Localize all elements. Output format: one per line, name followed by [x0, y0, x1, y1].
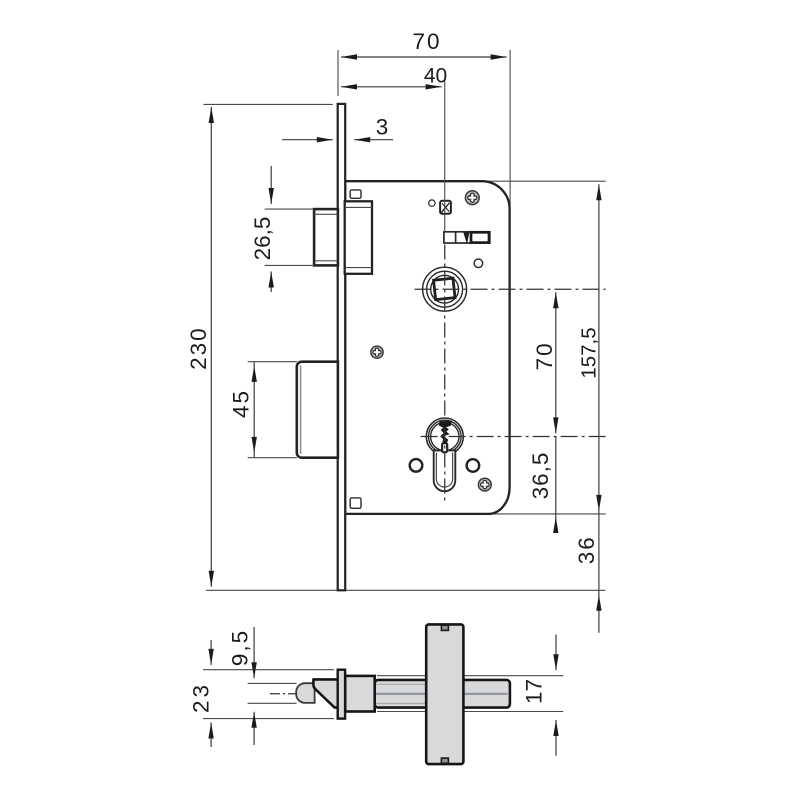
- latch bevel wedge: [313, 679, 337, 707]
- extension line body bottom right (for 157,5 / 36,5): [489, 513, 606, 515]
- extension line x=338 (left end of 70/40 dims): [337, 50, 339, 96]
- latch body (inside case): [345, 201, 372, 273]
- svg-text:70: 70: [412, 29, 441, 54]
- deadbolt: [297, 362, 338, 458]
- svg-text:157,5: 157,5: [578, 327, 601, 378]
- screw torx mid-left: [371, 346, 383, 358]
- extension line bottom shared (faceplate bottom, for 230 and 36): [206, 589, 606, 591]
- notch top: [441, 625, 448, 630]
- slot with lever: [444, 232, 490, 244]
- svg-text:3: 3: [376, 115, 389, 140]
- svg-text:23: 23: [188, 682, 213, 713]
- keyway slot: [442, 443, 447, 452]
- dim 17: [522, 635, 559, 756]
- latch bolt head: [314, 209, 338, 265]
- dim 23: [188, 640, 214, 747]
- extension line faceplate-top left (for 230): [203, 103, 332, 105]
- latch head inner lines: [315, 213, 338, 215]
- faceplate (bottom view): [338, 670, 345, 719]
- horizontal centerline spindle axis: [415, 288, 606, 290]
- svg-text:45: 45: [229, 389, 254, 418]
- screw torx bottom-right: [478, 478, 491, 491]
- dim 40: [341, 65, 447, 90]
- cylinder side circle left: [410, 459, 423, 472]
- seam line left: [345, 693, 426, 695]
- latch head (bottom view): [296, 683, 314, 703]
- case front block: [345, 676, 375, 712]
- svg-text:70: 70: [532, 341, 557, 370]
- small circle near top: [429, 200, 435, 206]
- svg-text:9,5: 9,5: [228, 629, 253, 666]
- lock case body: [345, 181, 509, 514]
- seam line right: [463, 693, 507, 695]
- spindle follower circles: [423, 267, 467, 311]
- euro cylinder circles: [426, 418, 463, 455]
- cylinder housing vertical bar: [426, 624, 463, 764]
- screw hole square bottom: [350, 498, 361, 508]
- dim 45: [229, 362, 297, 458]
- deadbolt inner line: [300, 366, 302, 455]
- svg-text:26,5: 26,5: [250, 217, 275, 261]
- ext lines 23 dim: [203, 669, 334, 671]
- horizontal centerline cylinder axis: [421, 436, 606, 438]
- adjuster square with X: [440, 201, 451, 214]
- small circle right of follower: [474, 259, 483, 268]
- dim 26,5: [250, 166, 314, 292]
- svg-text:17: 17: [522, 679, 547, 704]
- ext lines 9,5 dim: [248, 682, 297, 684]
- screw torx top-right: [465, 191, 479, 205]
- dim 70 top: [341, 29, 507, 60]
- dim 36,5: [528, 437, 559, 534]
- dim 230: [186, 107, 214, 587]
- svg-text:36,5: 36,5: [528, 452, 553, 500]
- dim 9,5: [228, 627, 257, 745]
- dim 70 right: [532, 292, 559, 433]
- extension line x=510 (right end of 70 dim): [509, 50, 511, 205]
- latch tail lines: [345, 683, 426, 685]
- dim 157,5 and 36 line: [574, 184, 602, 633]
- extension line body top right (for 157,5): [487, 180, 606, 182]
- screw hole square top: [350, 190, 361, 198]
- dim 3: [282, 115, 393, 143]
- svg-text:230: 230: [186, 326, 211, 370]
- notch bottom: [441, 758, 448, 763]
- vertical centerline through spindle/cylinder: [444, 80, 446, 232]
- case bar (bottom view): [375, 680, 510, 708]
- ext lines 17 dim: [377, 675, 563, 677]
- cylinder stem: [434, 450, 456, 491]
- cylinder side circle right: [467, 459, 480, 472]
- bottom view centerline stub: [270, 693, 297, 695]
- follower square: [434, 278, 455, 299]
- faceplate: [338, 104, 346, 590]
- svg-text:36: 36: [574, 535, 599, 564]
- latch body inner lines: [345, 206, 372, 208]
- key silhouette: [439, 421, 452, 444]
- svg-text:40: 40: [424, 65, 447, 88]
